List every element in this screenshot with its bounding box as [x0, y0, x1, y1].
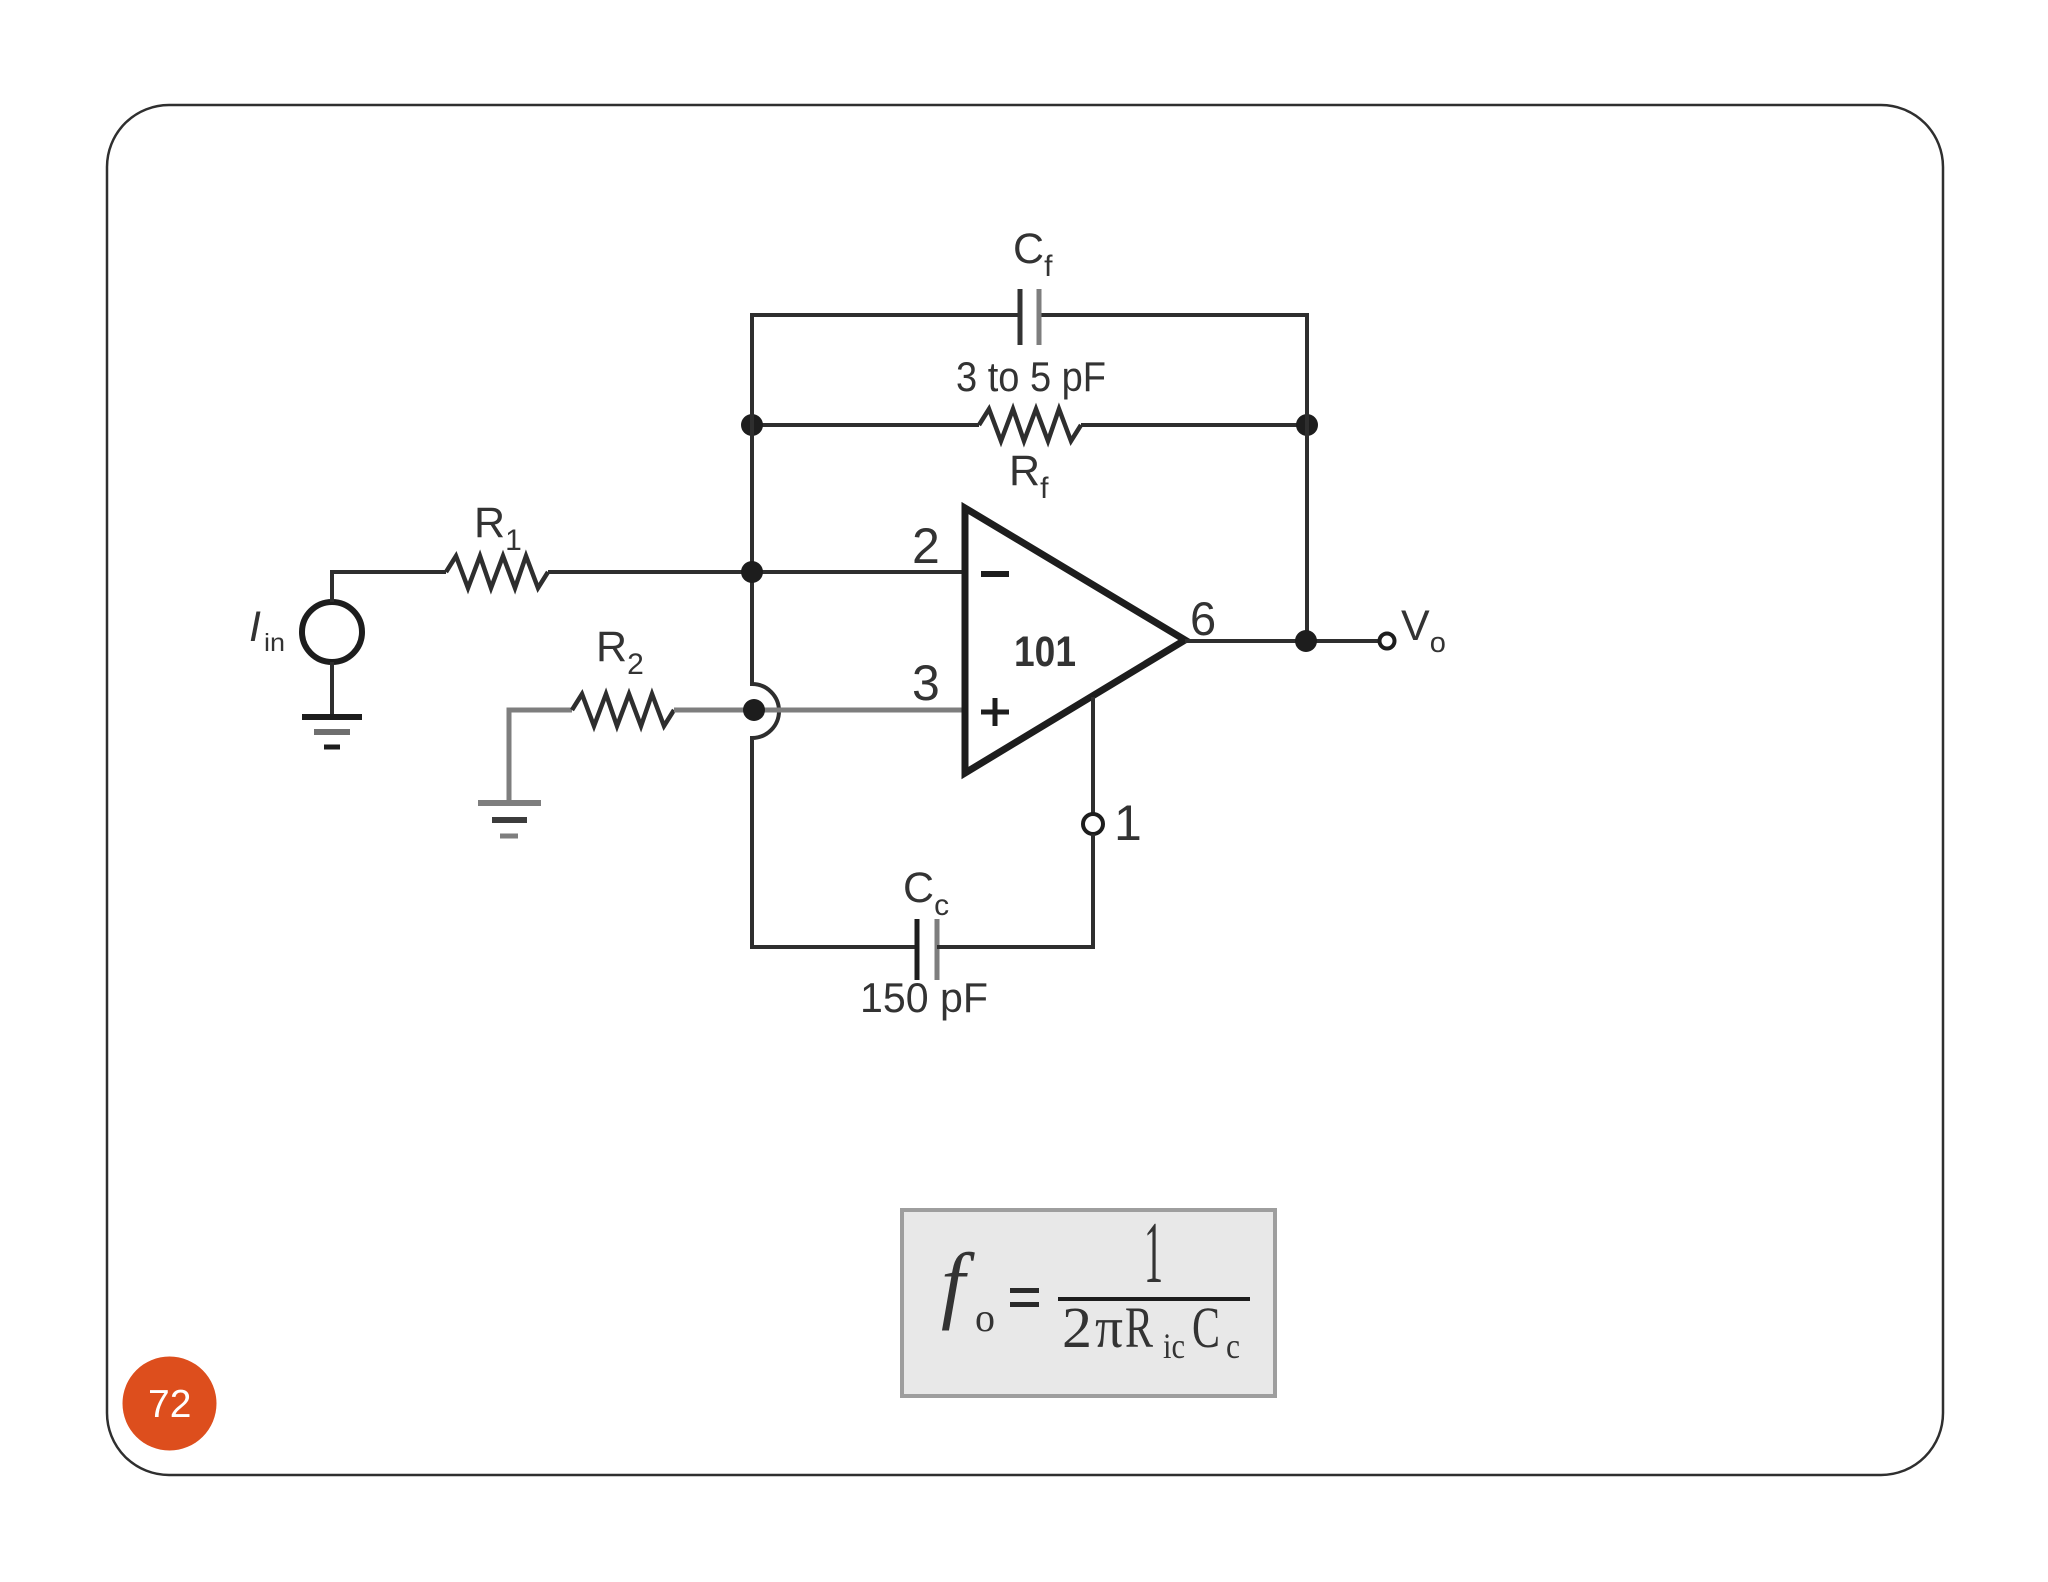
- svg-text:150 pF: 150 pF: [860, 974, 988, 1021]
- junction dot (pin2 node): [741, 561, 763, 583]
- op-amp U1 (101): [965, 508, 1185, 773]
- svg-text:3 to 5 pF: 3 to 5 pF: [956, 353, 1106, 400]
- formula box: [902, 1210, 1275, 1396]
- junction dot left (Rf wire): [741, 414, 763, 436]
- svg-text:I: I: [249, 603, 261, 651]
- ground (R2, gray): [478, 800, 541, 806]
- wire: R1 input wire: [330, 570, 446, 574]
- svg-text:C: C: [1192, 1295, 1220, 1360]
- wire: Rf feedback wire left segment: [752, 423, 979, 427]
- page number badge: [123, 1357, 217, 1451]
- svg-text:2: 2: [912, 518, 940, 574]
- wire: Rf feedback wire right segment: [1081, 423, 1307, 427]
- svg-text:1: 1: [1114, 795, 1142, 851]
- svg-text:ic: ic: [1163, 1326, 1185, 1366]
- wire: pin1 upper lead: [1091, 697, 1095, 814]
- svg-text:1: 1: [1144, 1205, 1163, 1302]
- ground (Iin): [302, 714, 362, 720]
- svg-text:6: 6: [1190, 592, 1216, 645]
- resistor R1: [446, 556, 548, 588]
- wire: top feedback wire left segment (to Cf): [751, 313, 1021, 317]
- capacitor Cf: [1018, 289, 1023, 345]
- wire: left vertical net (pin2 node) with hop over pin3 wire: [752, 313, 779, 949]
- junction dot (output node): [1295, 630, 1317, 652]
- capacitor Cc: [915, 919, 920, 980]
- junction dot (pin3 wire): [743, 699, 765, 721]
- svg-text:c: c: [1226, 1326, 1240, 1366]
- wire: R1 to inverting input: [548, 570, 963, 574]
- resistor Rf: [979, 409, 1081, 441]
- svg-text:R: R: [1125, 1295, 1153, 1360]
- svg-text:72: 72: [148, 1383, 191, 1426]
- slide frame: [107, 105, 1943, 1475]
- wire: right vertical net (output node): [1305, 313, 1309, 641]
- wire: R2 to non-inverting input (gray): [674, 708, 963, 713]
- svg-text:101: 101: [1014, 628, 1076, 676]
- resistor R2: [572, 694, 674, 726]
- svg-text:3: 3: [912, 655, 940, 711]
- junction dot right (Rf wire): [1296, 414, 1318, 436]
- formula fo = 1/(2piRicCc): [941, 1205, 1240, 1366]
- op-amp plus sign: [981, 710, 1009, 715]
- wire: pin1 lower lead: [1091, 834, 1095, 949]
- wire: Iin bottom lead: [330, 662, 334, 718]
- fraction bar: [1058, 1297, 1250, 1301]
- wire: output: [1185, 639, 1379, 643]
- op-amp minus sign: [981, 571, 1009, 577]
- wire: Iin top lead: [330, 570, 334, 602]
- current source Iin: [302, 602, 362, 662]
- wire: R2 ground riser (gray): [509, 710, 572, 800]
- svg-text:2: 2: [1062, 1295, 1092, 1360]
- terminal pin1 (open circle): [1083, 814, 1103, 834]
- svg-text:π: π: [1095, 1295, 1123, 1360]
- terminal Vo (open circle): [1380, 634, 1395, 649]
- svg-text:in: in: [264, 629, 285, 657]
- wire: top feedback wire right segment (from Cf): [1039, 313, 1309, 317]
- wire: bottom compensation wire right segment: [937, 945, 1095, 949]
- svg-text:o: o: [975, 1295, 995, 1340]
- wire: bottom compensation wire left segment: [750, 945, 917, 949]
